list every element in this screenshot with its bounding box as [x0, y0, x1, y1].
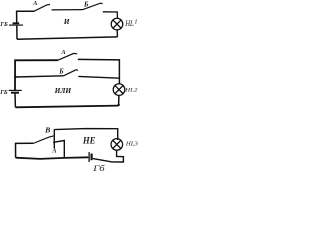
battery GB2 short thick plate: [11, 92, 19, 94]
wire: lamp3 feed wire: [54, 129, 117, 140]
wire: lamp3 bottom zigzag: [93, 150, 124, 162]
svg-text:А: А: [32, 0, 38, 7]
svg-text:Б: Б: [83, 1, 89, 8]
battery GB3 short thick plate: [90, 154, 92, 161]
svg-text:НЕ: НЕ: [82, 135, 96, 146]
battery GB1 long thin plate: [9, 24, 23, 26]
svg-text:А: А: [51, 148, 56, 155]
battery GB3 long thin plate: [88, 152, 90, 162]
wire: post to bypass corner: [54, 141, 64, 158]
svg-text:А: А: [60, 49, 66, 56]
wire: circuit2 middle wire right: [78, 76, 119, 78]
node: circuit2 bottom-right corner blob: [118, 104, 120, 106]
wire: circuit3 left loop top wire: [16, 143, 34, 158]
wire: circuit2 left lower wire: [14, 94, 16, 108]
switch V lever (closed onto post): [33, 136, 54, 144]
lamp HL2: [113, 84, 125, 96]
wire: circuit2 top wire: [15, 60, 58, 90]
svg-text:Б: Б: [58, 69, 64, 76]
battery GB1 short thick plate: [13, 22, 20, 24]
svg-text:ИЛИ: ИЛИ: [54, 86, 72, 95]
svg-text:Гб: Гб: [92, 164, 106, 173]
svg-text:HL2: HL2: [124, 87, 138, 93]
switch A1 lever: [34, 5, 50, 12]
svg-text:ГБ: ГБ: [0, 22, 8, 28]
wire: circuit2 top-right wire: [78, 59, 120, 84]
wire: circuit1 left lower wire: [16, 26, 18, 40]
wire: circuit3 bottom wire: [16, 157, 89, 159]
wire: circuit2 middle wire left: [15, 76, 63, 77]
wire: contact post vertical: [53, 129, 55, 148]
wire: lamp1 bottom lead: [116, 30, 118, 37]
node: post junction dot: [53, 141, 55, 143]
battery GB2 long thin plate: [9, 89, 22, 91]
switch A2 lever: [58, 53, 77, 60]
svg-text:HL: HL: [124, 19, 134, 28]
switch B1 lever: [83, 3, 103, 10]
wire: lamp2 bottom lead: [118, 95, 120, 105]
wire: circuit1 top-right wire: [103, 12, 118, 19]
svg-text:1: 1: [134, 19, 137, 26]
lamp HL1: [111, 18, 123, 30]
switch B2 lever: [64, 70, 79, 76]
wire: circuit1 bottom wire: [17, 37, 118, 39]
svg-text:HL3: HL3: [125, 140, 138, 147]
svg-text:В: В: [44, 126, 50, 135]
svg-text:И: И: [63, 17, 70, 26]
wire: circuit1 top-left wire: [17, 11, 34, 22]
lamp HL3: [111, 139, 123, 151]
wire: circuit2 bottom wire: [15, 106, 118, 108]
node: circuit2 middle-left junction: [14, 76, 16, 78]
svg-text:ГБ: ГБ: [0, 90, 8, 96]
wire: circuit1 wire between switches: [52, 9, 83, 11]
